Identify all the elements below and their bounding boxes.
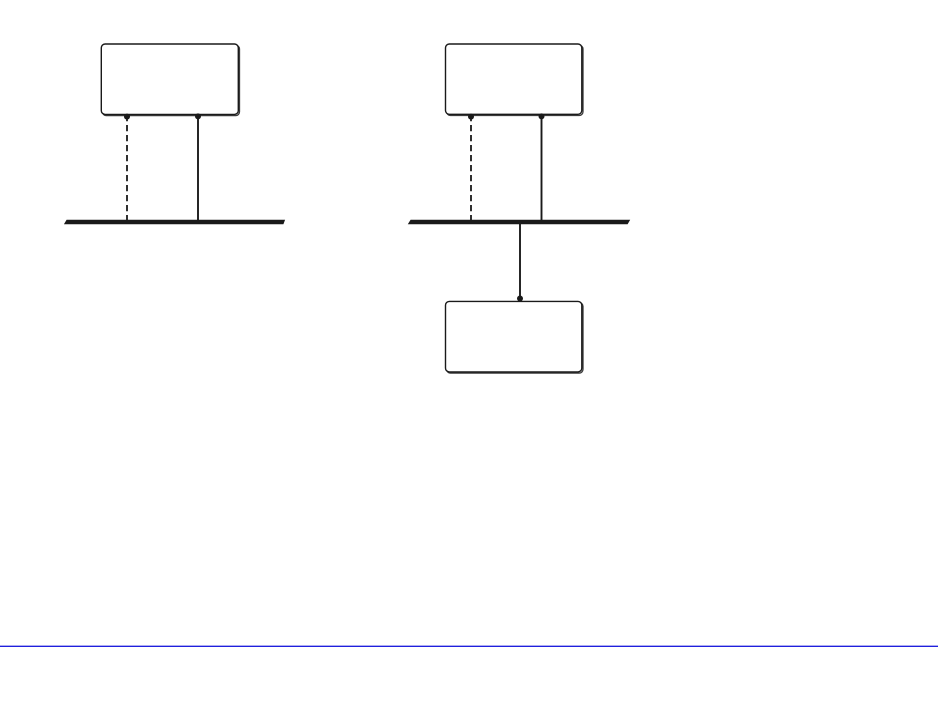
- bus: left network segment: [64, 220, 285, 225]
- bus: right network segment: [408, 220, 630, 225]
- wire: dashed link from left node to left bus: [126, 115, 128, 222]
- junction dot: left dashed attach: [124, 114, 130, 120]
- wire: solid link from right node to right bus: [541, 114, 543, 222]
- node box: right upper computer: [446, 44, 584, 116]
- separator rule: blue footer line: [0, 645, 938, 647]
- junction dot: lower node attach: [517, 296, 523, 302]
- junction dot: right solid attach: [539, 113, 545, 119]
- wire: drop link from right bus to lower node: [519, 222, 521, 299]
- wire: solid link from left node to left bus: [197, 114, 199, 222]
- node box: left computer: [101, 44, 239, 116]
- junction dot: right dashed attach: [468, 114, 474, 120]
- wire: dashed link from right node to right bus: [470, 115, 472, 222]
- node box: right lower computer: [446, 301, 584, 373]
- junction dot: left solid attach: [195, 113, 201, 119]
